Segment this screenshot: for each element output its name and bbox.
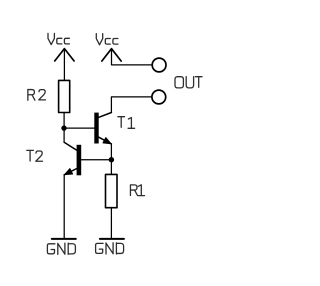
wire R1 bottom to right GND bbox=[110, 208, 112, 239]
wire T1 collector up and right to OUT pin bbox=[111, 97, 152, 113]
wire VCC (right) to top pin bbox=[112, 49, 153, 65]
label GND (right) bbox=[96, 243, 124, 254]
transistor T1 bbox=[94, 113, 111, 144]
pin circle OUT bbox=[152, 90, 166, 104]
wire T1 emitter to node B bbox=[110, 144, 112, 160]
wire R2 bottom to node A bbox=[63, 113, 65, 129]
label T2 bbox=[27, 150, 43, 161]
wire node A to T1 base bbox=[64, 127, 94, 129]
label Vcc (left) bbox=[48, 33, 69, 44]
wire node A to T2 collector bbox=[63, 128, 65, 142]
junction node A bbox=[61, 125, 66, 130]
pin circle (top, VCC) bbox=[152, 58, 166, 72]
label GND (left) bbox=[47, 243, 75, 254]
ground symbol (left) bbox=[52, 238, 76, 240]
junction node B bbox=[109, 157, 114, 162]
ground symbol (right) bbox=[100, 238, 124, 240]
wire node B to R1 top bbox=[110, 160, 112, 175]
label OUT bbox=[175, 77, 202, 88]
wire T2 emitter to left GND bbox=[63, 175, 65, 238]
resistor R2 bbox=[59, 80, 70, 112]
label R1 bbox=[130, 185, 144, 196]
resistor R1 bbox=[106, 174, 118, 207]
label T1 bbox=[118, 117, 135, 129]
transistor T2 bbox=[64, 142, 81, 175]
label Vcc (right) bbox=[96, 34, 118, 45]
wire node B to T2 base bbox=[81, 159, 111, 161]
label R2 bbox=[28, 90, 46, 101]
power symbol VCC (left) bbox=[55, 49, 74, 61]
wire VCC arrow stem to R2 top bbox=[63, 49, 65, 81]
power symbol VCC (right) bbox=[102, 49, 121, 61]
